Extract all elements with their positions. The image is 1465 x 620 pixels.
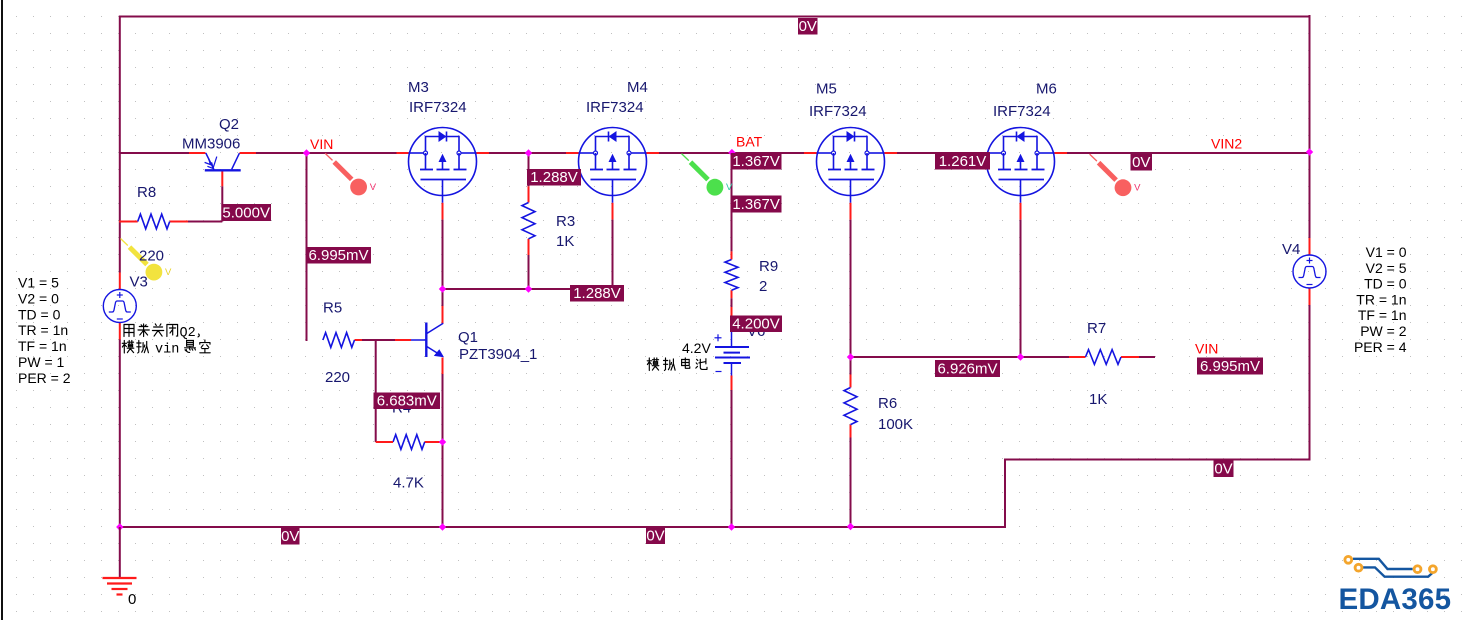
wire R3 bottom lead bbox=[528, 239, 530, 255]
svg-text:V1 = 0: V1 = 0 bbox=[1366, 244, 1407, 260]
node gate bus junction at R3 bottom bbox=[525, 285, 532, 292]
transistor M6 (PMOS IRF7324, mirrored) bbox=[987, 128, 1055, 196]
resistor R8 bbox=[138, 214, 170, 229]
wire M4 gate down to bus bbox=[612, 203, 614, 220]
svg-text:vin: vin bbox=[155, 342, 179, 357]
measurement 0V (top rail) bbox=[798, 18, 818, 35]
transistor M3 (PMOS IRF7324) bbox=[409, 128, 477, 196]
wire lower right 0V rail bbox=[1004, 459, 1311, 461]
svg-text:4.2V: 4.2V bbox=[682, 340, 711, 356]
wire R3 top lead bbox=[528, 153, 530, 186]
svg-text:V2 = 0: V2 = 0 bbox=[18, 290, 59, 306]
measurement 1.367V (BAT lower) bbox=[731, 196, 782, 213]
svg-text:PER = 4: PER = 4 bbox=[1354, 339, 1407, 355]
transistor M5 (PMOS IRF7324) bbox=[817, 128, 885, 196]
svg-text:4.7K: 4.7K bbox=[393, 475, 424, 492]
svg-text:PW = 1: PW = 1 bbox=[18, 354, 65, 370]
svg-text:R5: R5 bbox=[323, 300, 342, 317]
node R4-emitter junction bbox=[439, 438, 446, 445]
measurement 0V (lower right rail) bbox=[1214, 460, 1234, 478]
node bottom rail junction at ground bbox=[116, 523, 123, 530]
transistor M4 (PMOS IRF7324, mirrored) bbox=[579, 128, 647, 196]
node M5 gate junction bbox=[847, 353, 854, 360]
svg-text:6.995mV: 6.995mV bbox=[1200, 358, 1260, 375]
svg-text:IRF7324: IRF7324 bbox=[409, 99, 467, 116]
ground symbol bbox=[103, 577, 137, 579]
svg-text:PW = 2: PW = 2 bbox=[1360, 323, 1407, 339]
resistor R7 bbox=[1086, 350, 1122, 365]
svg-text:100K: 100K bbox=[878, 416, 913, 433]
svg-text:EDA365: EDA365 bbox=[1339, 583, 1452, 616]
wire M3 to R3 node bbox=[477, 152, 490, 154]
svg-text:0V: 0V bbox=[1132, 154, 1150, 171]
svg-text:BAT: BAT bbox=[736, 134, 763, 150]
svg-text:V1 = 5: V1 = 5 bbox=[18, 275, 59, 291]
svg-text:Q2: Q2 bbox=[180, 326, 196, 341]
measurement 6.683mV (Q1 base node) bbox=[374, 393, 441, 410]
svg-text:6.926mV: 6.926mV bbox=[937, 361, 997, 378]
voltage probe (yellow) at V3 node bbox=[121, 239, 128, 246]
wire M6 gate down to bus bbox=[1020, 203, 1022, 220]
svg-text:V: V bbox=[1134, 183, 1141, 194]
svg-text:VIN: VIN bbox=[1195, 341, 1218, 357]
voltage source V3 bbox=[103, 290, 136, 323]
wire bus to R7 bbox=[1021, 356, 1070, 358]
wire Q2 base down to 5.000V node bbox=[221, 170, 223, 186]
wire bottom 0V rail bbox=[119, 526, 1006, 528]
resistor R4 bbox=[393, 435, 425, 450]
resistor R5 bbox=[323, 333, 355, 348]
note text 模拟电池 (drawn CJK strokes) bbox=[647, 358, 659, 371]
svg-text:1.367V: 1.367V bbox=[732, 153, 780, 170]
measurement 0V (VIN2 rail) bbox=[1131, 154, 1153, 171]
svg-text:6.683mV: 6.683mV bbox=[377, 393, 437, 410]
svg-text:TF = 1n: TF = 1n bbox=[1358, 307, 1407, 323]
transistor Q2 (PNP MM3906) bbox=[206, 153, 214, 169]
measurement 0V (bottom rail left) bbox=[281, 528, 300, 545]
node gate bus junction at Q1 collector bbox=[439, 285, 446, 292]
wire R5 to Q1 base bbox=[355, 339, 363, 341]
svg-text:V2 = 5: V2 = 5 bbox=[1366, 260, 1407, 276]
voltage source V4 bbox=[1293, 255, 1326, 288]
node bottom rail junction below R6 bbox=[847, 523, 854, 530]
svg-text:PER = 2: PER = 2 bbox=[18, 370, 71, 386]
measurement 1.261V (M5-M6 rail) bbox=[935, 152, 990, 170]
measurement 6.995mV (VIN right) bbox=[1197, 358, 1263, 375]
svg-text:R7: R7 bbox=[1087, 320, 1106, 337]
svg-text:Q1: Q1 bbox=[458, 329, 478, 346]
svg-text:0V: 0V bbox=[1214, 461, 1232, 478]
battery V6 (4.2V) bbox=[731, 332, 733, 348]
svg-text:M6: M6 bbox=[1036, 81, 1057, 98]
svg-text:6.995mV: 6.995mV bbox=[308, 247, 368, 264]
svg-text:V: V bbox=[726, 182, 733, 193]
wire Q1 emitter down bbox=[442, 358, 444, 375]
svg-text:1K: 1K bbox=[1089, 391, 1107, 408]
wire gate bus M5-M6 bbox=[851, 356, 1021, 358]
svg-text:IRF7324: IRF7324 bbox=[809, 103, 867, 120]
svg-text:IRF7324: IRF7324 bbox=[993, 103, 1051, 120]
voltage probe (red) at VIN2 rail bbox=[1090, 154, 1097, 161]
wire battery minus to bottom rail bbox=[731, 376, 733, 391]
resistor R6 bbox=[844, 388, 857, 425]
voltage probe (green) at BAT bbox=[682, 154, 689, 161]
EDA365 logo bbox=[1353, 559, 1413, 569]
wire Q2 collector to VIN node bbox=[240, 152, 257, 154]
node M6 gate junction bbox=[1017, 353, 1024, 360]
svg-text:VIN: VIN bbox=[310, 136, 333, 152]
svg-text:R9: R9 bbox=[759, 258, 778, 275]
svg-text:MM3906: MM3906 bbox=[182, 136, 240, 153]
wire left vertical V3 to bottom rail bbox=[119, 340, 121, 529]
voltage probe (red) at VIN bbox=[325, 153, 332, 160]
wire M3 gate down to bus bbox=[442, 203, 444, 220]
measurement 6.995mV (VIN) bbox=[306, 247, 371, 264]
svg-text:1.288V: 1.288V bbox=[573, 285, 621, 302]
svg-text:220: 220 bbox=[139, 248, 164, 265]
wire emitter node to bottom rail bbox=[442, 442, 444, 528]
wire R7 right lead to VIN stub bbox=[1121, 356, 1139, 358]
wire M4 to BAT node bbox=[647, 152, 660, 154]
measurement 0V (bottom rail mid) bbox=[646, 528, 665, 545]
svg-text:M4: M4 bbox=[627, 79, 648, 96]
svg-text:R6: R6 bbox=[878, 395, 897, 412]
svg-text:V: V bbox=[165, 267, 172, 278]
svg-text:PZT3904_1: PZT3904_1 bbox=[459, 346, 537, 363]
svg-text:IRF7324: IRF7324 bbox=[586, 99, 644, 116]
svg-text:TD = 0: TD = 0 bbox=[1364, 276, 1407, 292]
wire R3 node to M4 bbox=[529, 152, 567, 154]
note text 模拟vin悬空 (drawn CJK strokes) bbox=[122, 340, 134, 353]
svg-text:R3: R3 bbox=[556, 213, 575, 230]
wire VIN vertical to R5 bbox=[306, 153, 308, 341]
svg-text:1.288V: 1.288V bbox=[530, 169, 578, 186]
measurement 5.000V (Q2 base) bbox=[221, 204, 271, 221]
svg-text:V3: V3 bbox=[130, 274, 148, 291]
svg-text:1.261V: 1.261V bbox=[939, 153, 987, 170]
svg-text:TR = 1n: TR = 1n bbox=[1356, 291, 1406, 307]
ground stem bbox=[119, 527, 121, 578]
measurement 4.200V (battery) bbox=[730, 316, 782, 333]
wire gate bus M3-R3-M4 bbox=[443, 288, 613, 290]
wire Q1 collector up to gate bus bbox=[442, 306, 444, 324]
wire M5 to M6 bbox=[885, 152, 898, 154]
resistor R3 bbox=[522, 203, 535, 239]
measurement 1.367V (BAT upper) bbox=[731, 153, 782, 170]
svg-text:1K: 1K bbox=[556, 233, 574, 250]
wire left vertical from top rail to V3 bbox=[119, 16, 121, 273]
wire R9 to battery bbox=[731, 290, 733, 298]
svg-text:2: 2 bbox=[759, 278, 767, 295]
svg-text:V: V bbox=[370, 182, 377, 193]
svg-text:0V: 0V bbox=[281, 528, 299, 545]
wire top 0V rail bbox=[119, 16, 1310, 18]
wire R8 leads bbox=[119, 221, 138, 223]
wire step down to bottom rail bbox=[1004, 460, 1006, 529]
node bottom rail junction below battery bbox=[728, 523, 735, 530]
wire R6 top lead bbox=[850, 357, 852, 375]
wire R5/R4 tee vertical bbox=[375, 340, 377, 442]
svg-text:TF = 1n: TF = 1n bbox=[18, 338, 67, 354]
measurement 1.288V (gate bus) bbox=[570, 285, 624, 302]
wire BAT node to M5 bbox=[732, 152, 805, 154]
wire VIN node to M3 bbox=[307, 152, 397, 154]
svg-text:0: 0 bbox=[128, 591, 136, 608]
node VIN2 junction bbox=[1306, 148, 1313, 155]
wire M5 gate down to bus bbox=[850, 203, 852, 220]
wire V3 pins bbox=[119, 273, 121, 290]
node VIN junction bbox=[303, 149, 310, 156]
node bottom rail junction below Q1 bbox=[439, 523, 446, 530]
wire R4 right lead to emitter node bbox=[425, 441, 443, 443]
svg-text:5.000V: 5.000V bbox=[222, 205, 270, 222]
transistor Q1 (NPN PZT3904_1) bbox=[411, 339, 426, 341]
wire V4 to lower right rail bbox=[1309, 289, 1311, 306]
svg-text:0V: 0V bbox=[646, 528, 664, 545]
measurement 6.926mV (gate bus) bbox=[935, 360, 1000, 377]
svg-text:1.367V: 1.367V bbox=[732, 196, 780, 213]
wire BAT vertical to R9 bbox=[731, 153, 733, 251]
svg-text:M5: M5 bbox=[816, 81, 837, 98]
svg-text:TR = 1n: TR = 1n bbox=[18, 322, 68, 338]
measurement 1.288V (R3 top) bbox=[527, 169, 581, 186]
svg-text:VIN2: VIN2 bbox=[1211, 136, 1242, 152]
svg-text:R8: R8 bbox=[137, 184, 156, 201]
resistor R9 bbox=[725, 260, 738, 291]
svg-text:TD = 0: TD = 0 bbox=[18, 306, 61, 322]
note text 用来关闭Q2, (drawn CJK strokes) bbox=[124, 325, 134, 337]
wire M6 to VIN2 corner bbox=[1055, 152, 1068, 154]
svg-text:M3: M3 bbox=[408, 79, 429, 96]
wire rail to Q2 emitter bbox=[120, 152, 190, 154]
wire right vertical top rail to V4 bbox=[1309, 15, 1311, 238]
svg-text:Q2: Q2 bbox=[219, 116, 239, 133]
node R3 top junction bbox=[525, 149, 532, 156]
wire R6 bottom lead to bottom rail bbox=[850, 425, 852, 438]
svg-text:0V: 0V bbox=[799, 18, 817, 35]
svg-text:220: 220 bbox=[325, 369, 350, 386]
node BAT junction bbox=[728, 149, 735, 156]
svg-text:4.200V: 4.200V bbox=[732, 316, 780, 333]
svg-text:V4: V4 bbox=[1282, 241, 1300, 258]
